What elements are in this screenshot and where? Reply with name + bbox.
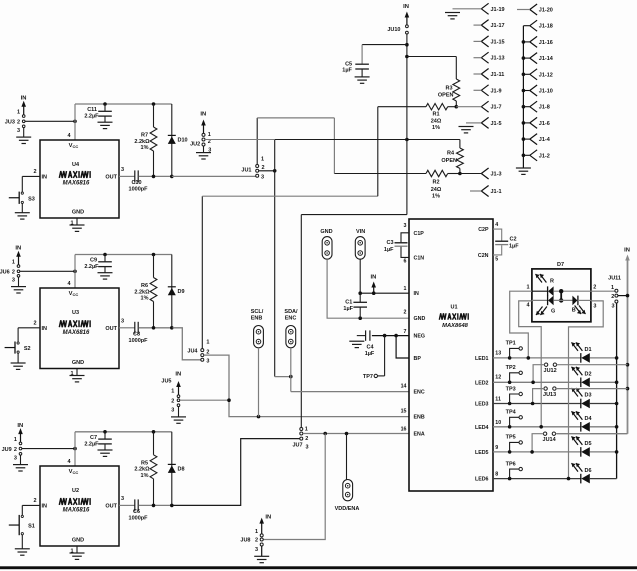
svg-text:1%: 1% — [432, 194, 440, 200]
svg-text:2: 2 — [611, 294, 614, 300]
svg-text:3: 3 — [255, 547, 258, 553]
svg-text:TP1: TP1 — [506, 341, 516, 347]
svg-text:3: 3 — [121, 496, 124, 502]
svg-text:J1-19: J1-19 — [491, 7, 505, 13]
svg-text:IN: IN — [42, 174, 48, 180]
svg-text:1: 1 — [208, 132, 211, 138]
svg-text:JU1: JU1 — [241, 168, 251, 174]
svg-text:B: B — [572, 308, 576, 314]
svg-text:2.2µF: 2.2µF — [84, 264, 99, 270]
svg-text:1: 1 — [261, 157, 264, 163]
svg-text:R4: R4 — [447, 151, 455, 157]
svg-text:4: 4 — [495, 222, 498, 228]
svg-text:C2N: C2N — [478, 253, 489, 259]
svg-text:IN: IN — [265, 515, 271, 521]
svg-text:2: 2 — [33, 320, 36, 326]
svg-text:OUT: OUT — [105, 503, 117, 509]
svg-text:C2P: C2P — [478, 227, 489, 233]
svg-text:D8: D8 — [178, 466, 185, 472]
svg-text:TP4: TP4 — [506, 410, 517, 416]
svg-text:TP3: TP3 — [506, 386, 516, 392]
svg-text:3: 3 — [121, 167, 124, 173]
svg-text:R5: R5 — [141, 460, 148, 466]
svg-text:1µF: 1µF — [384, 247, 394, 253]
svg-text:J1-12: J1-12 — [539, 72, 553, 78]
svg-text:D5: D5 — [585, 441, 592, 447]
svg-text:VCC: VCC — [69, 469, 79, 475]
svg-text:3: 3 — [404, 223, 407, 229]
svg-text:D4: D4 — [585, 416, 593, 422]
svg-text:JU3: JU3 — [5, 120, 15, 126]
svg-text:JU11: JU11 — [608, 275, 621, 281]
svg-text:LED3: LED3 — [475, 402, 489, 408]
svg-text:16: 16 — [401, 426, 407, 432]
svg-text:JU12: JU12 — [544, 368, 557, 374]
svg-text:TP6: TP6 — [506, 461, 516, 467]
svg-text:OPEN: OPEN — [441, 158, 457, 164]
svg-text:BP: BP — [414, 356, 422, 362]
svg-text:ENC: ENC — [285, 316, 297, 322]
svg-text:D9: D9 — [178, 289, 185, 295]
svg-text:1000pF: 1000pF — [129, 186, 149, 192]
svg-text:JU14: JU14 — [543, 437, 557, 443]
svg-text:C1P: C1P — [414, 231, 425, 237]
svg-text:IN: IN — [17, 423, 23, 429]
svg-text:1000pF: 1000pF — [129, 338, 149, 344]
svg-text:J1-5: J1-5 — [491, 121, 502, 127]
svg-text:3: 3 — [261, 175, 264, 181]
svg-text:GND: GND — [72, 210, 84, 216]
svg-text:C5: C5 — [345, 61, 352, 67]
svg-text:ENB: ENB — [251, 316, 263, 322]
svg-text:IN: IN — [370, 274, 376, 280]
svg-text:J1-8: J1-8 — [539, 105, 550, 111]
svg-text:2: 2 — [17, 120, 20, 126]
svg-text:2.2kΩ: 2.2kΩ — [134, 139, 150, 145]
svg-text:7: 7 — [404, 329, 407, 335]
svg-text:R: R — [550, 279, 554, 285]
svg-text:GND: GND — [72, 360, 84, 366]
svg-text:J1-1: J1-1 — [491, 189, 502, 195]
svg-text:R3: R3 — [445, 86, 452, 92]
svg-text:2: 2 — [171, 398, 174, 404]
svg-text:D2: D2 — [585, 372, 592, 378]
svg-text:MAX6816: MAX6816 — [63, 181, 90, 187]
svg-text:3: 3 — [171, 408, 174, 414]
svg-text:2.2kΩ: 2.2kΩ — [134, 289, 150, 295]
svg-text:8: 8 — [495, 472, 498, 478]
svg-text:5: 5 — [495, 257, 498, 263]
svg-text:TP2: TP2 — [506, 365, 516, 371]
svg-text:S3: S3 — [28, 196, 35, 202]
svg-text:IN: IN — [15, 246, 21, 252]
svg-text:GND: GND — [414, 316, 426, 322]
svg-text:1%: 1% — [141, 145, 149, 151]
svg-text:C8: C8 — [133, 331, 140, 337]
svg-text:2: 2 — [305, 436, 308, 442]
svg-text:MAX6816: MAX6816 — [63, 508, 90, 514]
svg-text:U1: U1 — [450, 305, 457, 311]
svg-text:3: 3 — [611, 304, 614, 310]
svg-text:1: 1 — [70, 221, 73, 227]
svg-text:1%: 1% — [141, 473, 149, 479]
svg-text:C6: C6 — [133, 509, 140, 515]
svg-text:VDD/ENA: VDD/ENA — [335, 506, 360, 512]
svg-text:C1N: C1N — [414, 255, 425, 261]
svg-text:VCC: VCC — [69, 143, 79, 149]
svg-text:1: 1 — [14, 437, 17, 443]
svg-text:11: 11 — [495, 397, 501, 403]
svg-text:JU4: JU4 — [187, 348, 198, 354]
svg-text:SCL/: SCL/ — [251, 309, 264, 315]
svg-text:SDA/: SDA/ — [284, 309, 298, 315]
svg-text:MAX6816: MAX6816 — [63, 330, 90, 336]
svg-text:OUT: OUT — [105, 174, 117, 180]
svg-text:GND: GND — [320, 229, 332, 235]
svg-text:R6: R6 — [141, 283, 148, 289]
svg-text:2: 2 — [593, 284, 596, 290]
svg-text:J1-17: J1-17 — [491, 23, 505, 29]
svg-text:9: 9 — [495, 445, 498, 451]
svg-text:J1-20: J1-20 — [539, 8, 553, 14]
svg-text:1: 1 — [305, 427, 308, 433]
svg-text:3: 3 — [593, 303, 596, 309]
svg-text:C4: C4 — [366, 344, 374, 350]
svg-text:D6: D6 — [585, 468, 592, 474]
svg-text:TP5: TP5 — [506, 435, 516, 441]
svg-text:1: 1 — [527, 284, 530, 290]
svg-text:J1-14: J1-14 — [539, 56, 554, 62]
svg-text:U4: U4 — [72, 162, 80, 168]
svg-text:IN: IN — [21, 96, 27, 102]
svg-text:10: 10 — [495, 420, 501, 426]
svg-text:J1-18: J1-18 — [539, 24, 553, 30]
svg-text:J1-13: J1-13 — [491, 56, 505, 62]
svg-text:3: 3 — [17, 128, 20, 134]
svg-text:J1-16: J1-16 — [539, 40, 553, 46]
svg-text:IN: IN — [414, 291, 419, 297]
svg-text:2: 2 — [255, 538, 258, 544]
svg-text:IN: IN — [403, 4, 409, 10]
svg-text:1%: 1% — [432, 125, 440, 131]
svg-text:C11: C11 — [87, 107, 97, 113]
svg-text:ENA: ENA — [414, 432, 425, 438]
svg-text:IN: IN — [42, 503, 48, 509]
svg-text:ENC: ENC — [414, 390, 425, 396]
svg-text:3: 3 — [14, 455, 17, 461]
svg-text:J1-7: J1-7 — [491, 105, 502, 111]
svg-text:IN: IN — [624, 247, 630, 253]
svg-text:1µF: 1µF — [343, 306, 353, 312]
svg-text:U3: U3 — [72, 310, 79, 316]
svg-text:1µF: 1µF — [342, 68, 352, 74]
svg-text:6: 6 — [404, 259, 407, 265]
svg-text:IN: IN — [42, 326, 48, 332]
svg-text:J1-10: J1-10 — [539, 89, 553, 95]
svg-text:2.2µF: 2.2µF — [84, 441, 99, 447]
svg-text:3: 3 — [12, 277, 15, 283]
svg-text:C3: C3 — [386, 240, 393, 246]
svg-text:1000pF: 1000pF — [129, 515, 149, 521]
svg-text:1: 1 — [611, 285, 614, 291]
svg-text:NEG: NEG — [414, 334, 425, 340]
svg-text:OPEN: OPEN — [438, 93, 454, 99]
svg-text:C2: C2 — [510, 236, 517, 242]
svg-text:GND: GND — [72, 538, 84, 544]
svg-text:D1: D1 — [585, 347, 592, 353]
svg-text:3: 3 — [306, 444, 309, 450]
svg-text:VCC: VCC — [69, 291, 79, 297]
svg-text:G: G — [551, 308, 555, 314]
svg-text:2: 2 — [33, 498, 36, 504]
svg-text:2: 2 — [404, 310, 407, 316]
svg-text:2: 2 — [33, 169, 36, 175]
svg-text:C7: C7 — [90, 435, 97, 441]
svg-text:24Ω: 24Ω — [431, 118, 442, 124]
svg-text:S2: S2 — [24, 346, 31, 352]
svg-text:C9: C9 — [90, 258, 97, 264]
svg-text:24Ω: 24Ω — [431, 187, 442, 193]
svg-text:LED5: LED5 — [475, 450, 489, 456]
svg-text:1%: 1% — [141, 296, 149, 302]
svg-text:IN: IN — [175, 372, 181, 378]
svg-text:S1: S1 — [28, 524, 35, 530]
svg-text:J1-11: J1-11 — [491, 72, 505, 78]
svg-text:D7: D7 — [557, 262, 564, 268]
svg-text:3: 3 — [121, 318, 124, 324]
svg-text:12: 12 — [495, 375, 501, 381]
svg-text:R2: R2 — [432, 180, 439, 186]
svg-text:J1-6: J1-6 — [539, 121, 550, 127]
svg-text:LED2: LED2 — [475, 380, 489, 386]
svg-text:J1-9: J1-9 — [491, 88, 502, 94]
svg-text:JU9: JU9 — [2, 447, 12, 453]
svg-text:JU10: JU10 — [387, 27, 400, 33]
svg-text:JU7: JU7 — [293, 442, 303, 448]
svg-text:LED6: LED6 — [475, 477, 489, 483]
svg-text:JU5: JU5 — [161, 379, 171, 385]
svg-text:U2: U2 — [72, 488, 79, 494]
svg-text:1: 1 — [255, 529, 258, 535]
svg-text:J1-15: J1-15 — [491, 39, 505, 45]
svg-text:C10: C10 — [131, 180, 141, 186]
svg-text:LED1: LED1 — [475, 356, 489, 362]
svg-text:R1: R1 — [432, 112, 439, 118]
svg-text:OUT: OUT — [105, 326, 117, 332]
svg-text:13: 13 — [495, 350, 501, 356]
svg-text:D3: D3 — [585, 393, 592, 399]
svg-text:J1-3: J1-3 — [491, 172, 502, 178]
svg-text:1: 1 — [17, 110, 20, 116]
svg-text:3: 3 — [206, 359, 209, 365]
svg-text:JU13: JU13 — [543, 392, 556, 398]
svg-text:J1-4: J1-4 — [539, 137, 551, 143]
svg-text:ENB: ENB — [414, 415, 425, 421]
svg-text:D10: D10 — [178, 137, 188, 143]
svg-text:1: 1 — [206, 340, 209, 346]
svg-text:TP7: TP7 — [363, 374, 373, 380]
svg-text:2: 2 — [262, 165, 265, 171]
svg-text:MAX8648: MAX8648 — [442, 323, 469, 329]
svg-text:C1: C1 — [345, 299, 352, 305]
svg-text:1: 1 — [12, 260, 15, 266]
svg-text:1µF: 1µF — [509, 243, 519, 249]
svg-text:2.2kΩ: 2.2kΩ — [134, 467, 150, 473]
svg-text:R7: R7 — [141, 133, 148, 139]
svg-text:JU2: JU2 — [190, 142, 200, 148]
svg-text:1µF: 1µF — [365, 351, 375, 357]
svg-text:1: 1 — [171, 389, 174, 395]
svg-text:LED4: LED4 — [475, 425, 489, 431]
svg-text:14: 14 — [401, 383, 407, 389]
svg-text:2: 2 — [12, 270, 15, 276]
svg-text:VIN: VIN — [356, 229, 365, 235]
svg-text:IN: IN — [200, 112, 206, 118]
svg-text:2: 2 — [14, 447, 17, 453]
svg-text:J1-2: J1-2 — [539, 153, 550, 159]
svg-text:2.2µF: 2.2µF — [84, 114, 99, 120]
svg-text:JU8: JU8 — [240, 538, 250, 544]
svg-text:JU6: JU6 — [0, 270, 10, 276]
svg-text:1: 1 — [404, 286, 407, 292]
svg-text:15: 15 — [401, 408, 407, 414]
